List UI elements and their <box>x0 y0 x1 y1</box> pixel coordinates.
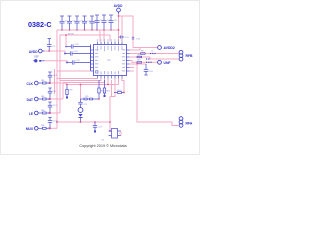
capacitor C9 <box>47 39 52 52</box>
wire aux vertical <box>54 69 56 94</box>
svg-text:RFA: RFA <box>186 122 193 126</box>
U1 right pins <box>127 50 130 71</box>
junction rail1 caps <box>61 29 63 31</box>
resistor R1 <box>38 82 48 84</box>
wire pin x122 jog <box>122 79 124 93</box>
capacitor C20 row <box>67 60 91 64</box>
U1 top pins <box>98 42 123 45</box>
U1 bottom pins <box>98 76 123 79</box>
capacitor C17 <box>93 122 97 131</box>
wire riser PD low <box>56 79 58 129</box>
pin1 marker <box>96 71 98 73</box>
capacitor C12 <box>48 102 52 113</box>
wire riser CLK <box>65 83 67 85</box>
svg-text:Copyright 2019 © Microdata: Copyright 2019 © Microdata <box>79 144 127 148</box>
resistor R9 row <box>81 98 100 100</box>
wire AVDD2 feed <box>119 16 134 48</box>
resistor R4 <box>38 127 48 129</box>
U1 top pin numbers <box>97 39 123 42</box>
resistor R11 <box>103 80 105 95</box>
wire RFB top row <box>130 53 180 55</box>
wire C18 feed <box>65 35 67 47</box>
resistor R10 <box>98 80 100 99</box>
capacitor C3 <box>75 16 80 30</box>
capacitor C2 <box>67 16 72 30</box>
wire LE row <box>49 112 61 114</box>
wire pin y67.5 stub <box>130 67 135 69</box>
wire RFB bottom row <box>130 57 180 59</box>
inductor L3 marks <box>146 62 152 63</box>
wire pin y71 stub <box>130 70 135 72</box>
wire pin x115 drop <box>110 79 115 97</box>
svg-text:0382-C: 0382-C <box>28 20 52 29</box>
resistor R8 <box>66 85 68 97</box>
wire CLK row <box>49 82 67 84</box>
junction y64 x137 <box>136 63 138 65</box>
U1 inner pin labels <box>95 46 125 74</box>
connector J7 AVDD2 <box>158 46 162 50</box>
resistor R2 <box>38 98 48 100</box>
svg-text:REF: REF <box>34 56 39 59</box>
wire bundle to pin row 4 <box>57 78 98 80</box>
inductor L1 marks <box>150 53 156 54</box>
wire riser LE low <box>59 81 61 114</box>
capacitor C6 <box>95 15 100 30</box>
junction box left <box>109 130 111 132</box>
resistor R12 <box>114 92 124 94</box>
wire pin riser x104 <box>103 30 105 42</box>
wire pin riser x100 <box>99 30 101 42</box>
wire top rail 1 <box>57 30 119 82</box>
svg-text:DAT: DAT <box>27 98 33 102</box>
resistor R6 <box>137 56 142 58</box>
capacitor C19 row <box>65 51 91 55</box>
junction bundle x108 <box>107 84 109 86</box>
svg-text:LE: LE <box>29 112 33 116</box>
wire AVDD2 row <box>133 47 158 49</box>
capacitor C11 <box>48 88 52 99</box>
wire long drop to RFA <box>137 64 178 126</box>
svg-text:AVDD: AVDD <box>114 4 123 8</box>
wire bundle to pin row 1 <box>66 79 119 85</box>
svg-text:MUX: MUX <box>26 127 34 131</box>
junction at AVDD2 tap <box>118 15 120 17</box>
wire riser DAT <box>62 83 64 100</box>
wire PD row <box>49 127 58 129</box>
wire bundle to pin row 3 <box>60 79 101 81</box>
capacitor C7 <box>102 15 107 30</box>
capacitor C5 <box>90 16 95 30</box>
junction C9 <box>48 50 50 52</box>
capacitor C15 on riser <box>132 37 134 39</box>
wire y122 row <box>57 121 110 123</box>
wire bundle to pin row 2 <box>63 79 105 83</box>
connector J10 RFA <box>179 117 183 128</box>
wire LED column drop <box>80 85 82 100</box>
capacitor C4 <box>82 16 87 30</box>
border frame <box>1 1 200 155</box>
capacitor C18 row <box>66 44 91 48</box>
wire DAT row <box>49 98 64 100</box>
inductor L2 marks <box>146 58 149 59</box>
wire UNF row <box>130 61 158 63</box>
svg-text:AVDD: AVDD <box>29 50 38 54</box>
IC U1 <box>94 45 127 76</box>
junction R10 bottom <box>98 98 100 100</box>
resistor R3 <box>38 112 48 114</box>
capacitor C13 <box>48 117 52 128</box>
svg-text:AVDD: AVDD <box>68 32 74 35</box>
capacitor C8 <box>109 15 114 30</box>
wire row y71 <box>57 70 91 72</box>
capacitor C14 small <box>119 36 125 39</box>
wire top rail 2 <box>60 35 110 88</box>
wire pin riser x122 <box>121 16 123 42</box>
capacitor C1 <box>60 16 65 30</box>
resistor R7 <box>137 62 142 64</box>
wire y96 to box <box>109 97 111 132</box>
crystal Y1 box <box>109 129 122 139</box>
LED D1 <box>78 108 83 113</box>
U1 left pins <box>91 50 94 71</box>
wire pin x118.5 drop <box>118 79 120 85</box>
wire J1 drop <box>118 14 120 42</box>
connector J8 RFB <box>179 50 183 61</box>
connector J9 UNF <box>158 60 162 64</box>
wire y64 row <box>130 63 147 65</box>
wire pin riser x110 <box>109 35 111 42</box>
capacitor C21 <box>78 99 82 108</box>
svg-text:AVDD2: AVDD2 <box>164 46 175 50</box>
svg-text:CLK: CLK <box>26 82 33 86</box>
capacitor C16 <box>144 64 149 75</box>
wire AVDD row <box>45 51 66 54</box>
wire pin y50 jog <box>130 48 141 51</box>
wire x110 drop <box>110 80 112 97</box>
svg-text:UNF: UNF <box>164 61 171 65</box>
svg-text:RFB: RFB <box>186 54 194 58</box>
wire box right up <box>120 131 122 136</box>
capacitor C10 <box>48 72 52 83</box>
left pin bus <box>90 45 92 72</box>
resistor R5 <box>141 53 146 55</box>
wire REF row <box>45 61 68 63</box>
svg-text:U1: U1 <box>107 58 111 62</box>
junction R8 top <box>66 84 68 86</box>
